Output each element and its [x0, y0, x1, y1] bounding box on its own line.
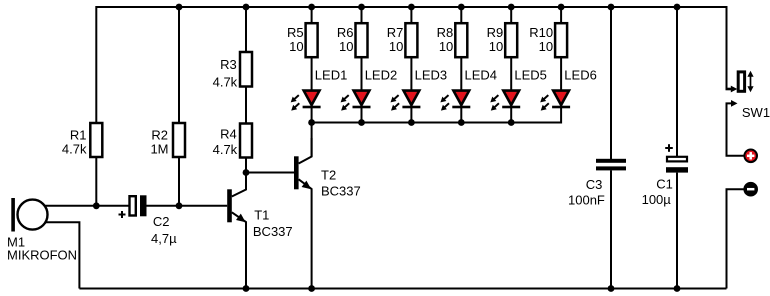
junction bus LED4 — [458, 119, 465, 126]
C2 plus sign — [119, 211, 126, 218]
SW1 travel arrow — [747, 71, 753, 92]
wire C3 to ground rail — [610, 170, 612, 288]
wire minus terminal to ground rail — [727, 189, 745, 288]
svg-text:100nF: 100nF — [568, 192, 605, 207]
svg-text:R4: R4 — [220, 127, 237, 142]
LED4 emission arrows — [440, 95, 449, 111]
LED1 cathode bar — [303, 106, 321, 109]
transistor T2 emitter — [299, 179, 312, 288]
svg-text:R6: R6 — [337, 25, 354, 40]
wire rail corner to R1 — [95, 6, 97, 123]
wire LED5 to bus — [510, 108, 512, 123]
label R1 — [62, 127, 87, 156]
wire R5 to LED1 — [311, 57, 313, 90]
SW1 fixed contact arrow — [726, 86, 738, 93]
junction bus LED1 — [308, 119, 315, 126]
label SW1 — [742, 105, 770, 120]
wire LED cathode bus — [312, 122, 561, 124]
label C1 100u — [642, 177, 673, 207]
wire node to C2 — [96, 205, 129, 207]
SW1 moving contact arrow — [727, 100, 738, 110]
junction top rail C3 — [608, 4, 615, 11]
LED2 triangle — [354, 91, 370, 105]
svg-text:10: 10 — [539, 39, 553, 54]
LED6 cathode bar — [552, 106, 570, 109]
junction mic node — [93, 202, 100, 209]
capacitor C3 top plate — [596, 159, 626, 163]
svg-text:R7: R7 — [387, 25, 404, 40]
junction T2 emitter ground — [308, 285, 315, 292]
transistor T2 base bar — [294, 156, 299, 189]
wire top supply rail — [96, 6, 726, 8]
label R10 10 — [529, 25, 553, 54]
resistor R7 — [405, 23, 417, 57]
svg-text:100µ: 100µ — [642, 192, 672, 207]
junction bus LED5 — [508, 119, 515, 126]
label LED3 — [415, 67, 448, 82]
wire R9 to LED5 — [510, 57, 512, 90]
svg-text:LED5: LED5 — [514, 67, 547, 82]
junction top rail R7 — [408, 4, 415, 11]
resistor R4 — [240, 124, 252, 158]
resistor R1 — [90, 123, 102, 157]
label T1 BC337 — [253, 207, 293, 238]
LED3 emission arrows — [391, 95, 400, 111]
wire rail to R9 — [510, 7, 512, 23]
junction top rail R5 — [308, 4, 315, 11]
label R3 — [213, 57, 238, 89]
junction top rail R9 — [508, 4, 515, 11]
terminal minus — [744, 183, 757, 196]
resistor R3 — [240, 52, 252, 87]
label C3 100nF — [568, 177, 605, 207]
svg-text:10: 10 — [489, 39, 503, 54]
capacitor C2 negative plate — [140, 195, 147, 216]
LED3 cathode bar — [402, 106, 420, 109]
wire rail to C1 — [676, 7, 678, 156]
junction top rail R3 — [243, 4, 250, 11]
wire SW1 to plus terminal — [727, 103, 745, 155]
svg-text:T1: T1 — [254, 207, 269, 222]
LED4 triangle — [453, 91, 469, 105]
svg-text:LED4: LED4 — [465, 67, 498, 82]
wire rail to R7 — [410, 7, 412, 23]
LED3 triangle — [404, 91, 420, 105]
svg-text:BC337: BC337 — [253, 224, 293, 239]
LED5 cathode bar — [502, 106, 520, 109]
junction top rail R2 — [176, 4, 183, 11]
svg-text:SW1: SW1 — [742, 105, 770, 120]
label C2 4,7u — [151, 214, 177, 246]
wire C2 to T1 base — [147, 205, 228, 207]
wire LED4 to bus — [460, 108, 462, 123]
resistor R8 — [455, 23, 467, 57]
svg-text:10: 10 — [289, 39, 303, 54]
LED2 emission arrows — [341, 95, 350, 111]
LED1 triangle — [304, 91, 320, 105]
wire rail to R5 — [311, 7, 313, 23]
label R8 10 — [437, 25, 454, 54]
svg-text:C3: C3 — [586, 177, 603, 192]
SW1 slider body — [738, 72, 744, 91]
svg-text:LED6: LED6 — [564, 67, 597, 82]
svg-text:R8: R8 — [437, 25, 454, 40]
wire rail to SW1 — [726, 6, 728, 89]
C1 plus sign — [665, 144, 673, 152]
wire mic to node — [44, 205, 96, 207]
wire R1 to mic node — [95, 157, 97, 206]
junction top rail R6 — [358, 4, 365, 11]
svg-text:4.7k: 4.7k — [62, 142, 87, 157]
svg-text:T2: T2 — [321, 168, 336, 183]
wire node A to T2 base — [246, 172, 294, 174]
wire rail to R3 — [245, 7, 247, 52]
transistor T1 collector — [232, 172, 246, 197]
label R6 10 — [337, 25, 354, 54]
label R9 10 — [487, 25, 504, 54]
svg-text:10: 10 — [389, 39, 403, 54]
junction top rail C1 — [674, 4, 681, 11]
resistor R10 — [555, 23, 567, 57]
wire R4 to node A — [245, 158, 247, 173]
svg-text:BC337: BC337 — [321, 184, 361, 199]
svg-text:LED3: LED3 — [415, 67, 448, 82]
label T2 BC337 — [321, 168, 361, 199]
wire LED3 to bus — [410, 108, 412, 123]
microphone M1 body — [18, 200, 48, 230]
transistor T2 collector — [299, 138, 312, 164]
resistor R5 — [306, 23, 318, 57]
label LED6 — [564, 67, 597, 82]
wire T2 collector to LED bus — [311, 123, 313, 157]
wire R6 to LED2 — [361, 57, 363, 90]
wire LED6 to bus corner — [560, 108, 562, 124]
wire mic to ground rail — [45, 222, 79, 288]
wire rail to R2 — [178, 7, 180, 123]
LED5 emission arrows — [490, 95, 499, 111]
label R7 10 — [387, 25, 404, 54]
wire LED1 to bus — [311, 108, 313, 123]
svg-text:MIKROFON: MIKROFON — [7, 248, 77, 263]
wire LED2 to bus — [361, 108, 363, 123]
svg-text:LED2: LED2 — [365, 67, 398, 82]
svg-text:C2: C2 — [153, 214, 170, 229]
svg-text:R9: R9 — [487, 25, 504, 40]
svg-text:10: 10 — [439, 39, 453, 54]
label LED1 — [315, 67, 348, 82]
junction bus LED3 — [408, 119, 415, 126]
junction R2 base node — [176, 202, 183, 209]
svg-text:LED1: LED1 — [315, 67, 348, 82]
svg-text:R10: R10 — [529, 25, 553, 40]
LED4 cathode bar — [452, 106, 470, 109]
label R5 10 — [287, 25, 304, 54]
svg-text:R5: R5 — [287, 25, 304, 40]
wire R3 to R4 — [245, 87, 247, 124]
terminal plus — [744, 150, 757, 163]
junction T1 emitter ground — [243, 285, 250, 292]
svg-text:C1: C1 — [656, 177, 673, 192]
wire R8 to LED4 — [460, 57, 462, 90]
svg-text:1M: 1M — [150, 142, 168, 157]
svg-text:4.7k: 4.7k — [213, 74, 238, 89]
LED6 emission arrows — [540, 95, 549, 111]
wire rail to C3 — [610, 7, 612, 160]
capacitor C3 bottom plate — [596, 166, 626, 170]
label LED2 — [365, 67, 398, 82]
wire rail to R10 — [560, 7, 562, 23]
resistor R2 — [173, 123, 185, 157]
capacitor C2 plus plate — [130, 196, 136, 215]
LED1 emission arrows — [291, 95, 300, 111]
resistor R6 — [356, 23, 368, 57]
label LED4 — [465, 67, 498, 82]
LED5 triangle — [503, 91, 519, 105]
LED6 triangle — [553, 91, 569, 105]
junction top rail R10 — [558, 4, 565, 11]
svg-text:10: 10 — [339, 39, 353, 54]
svg-text:4,7µ: 4,7µ — [151, 231, 177, 246]
junction C1 ground — [674, 285, 681, 292]
transistor T1 emitter — [232, 212, 246, 288]
resistor R9 — [505, 23, 517, 57]
label LED5 — [514, 67, 547, 82]
junction top rail R8 — [458, 4, 465, 11]
label R4 — [213, 127, 238, 157]
svg-text:R3: R3 — [220, 57, 237, 72]
microphone M1 element bar — [11, 198, 15, 232]
wire R2 to base node — [178, 157, 180, 206]
wire bottom ground rail — [79, 288, 726, 290]
wire rail to R8 — [460, 7, 462, 23]
wire R10 to LED6 — [560, 57, 562, 90]
svg-text:4.7k: 4.7k — [213, 142, 238, 157]
junction C3 ground — [608, 285, 615, 292]
transistor T1 base bar — [227, 189, 232, 222]
svg-text:R2: R2 — [151, 127, 168, 142]
capacitor C1 negative plate — [666, 167, 688, 172]
junction bus LED2 — [358, 119, 365, 126]
wire C1 to ground rail — [676, 173, 678, 289]
LED2 cathode bar — [353, 106, 371, 109]
capacitor C1 positive plate — [667, 157, 687, 162]
junction node A (R4/T1 collector/T2 base) — [243, 169, 250, 176]
wire R7 to LED3 — [410, 57, 412, 90]
label M1 MIKROFON — [7, 234, 77, 262]
label R2 — [150, 127, 168, 156]
svg-text:R1: R1 — [70, 127, 87, 142]
wire rail to R6 — [361, 7, 363, 23]
